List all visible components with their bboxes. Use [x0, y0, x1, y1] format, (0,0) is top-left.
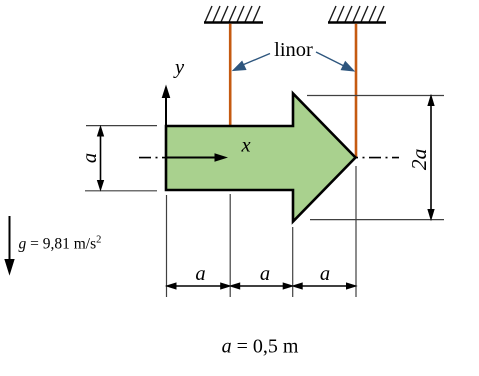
bottom dimension a segment 3	[293, 283, 356, 289]
centerline (dash-dot axis)	[139, 157, 399, 159]
dimension 2a right: extension line bottom	[310, 219, 444, 221]
dimension 2a right: extension line top	[307, 95, 444, 97]
bottom dimension: extension line 3	[292, 227, 294, 297]
dimension 2a right: double arrow	[428, 96, 434, 220]
bottom dimension a segment 1	[167, 283, 231, 289]
ceiling support right (bar)	[328, 21, 386, 24]
callout arrow right	[316, 52, 354, 71]
ceiling support right (hatching)	[329, 6, 384, 22]
ceiling support left (bar)	[204, 21, 263, 24]
dimension a left: extension line top	[86, 125, 157, 127]
y-axis	[162, 85, 171, 159]
svg-text:a: a	[260, 263, 270, 285]
svg-text:y: y	[173, 57, 185, 79]
cord right (linor)	[355, 24, 358, 157]
cord left (linor)	[229, 24, 232, 126]
dimension a left: extension line bottom	[85, 190, 157, 192]
dimension a left: double arrow	[98, 127, 104, 191]
svg-text:a: a	[320, 263, 330, 285]
svg-text:a: a	[195, 263, 205, 285]
svg-text:a: a	[79, 153, 101, 163]
ceiling support left (hatching)	[205, 6, 260, 22]
bottom dimension: extension line 4	[355, 166, 357, 297]
bottom dimension: extension line 1	[166, 195, 168, 297]
callout arrow left	[233, 54, 270, 71]
x-axis	[166, 153, 228, 162]
svg-text:2a: 2a	[407, 149, 431, 171]
bottom dimension: extension line 2	[229, 194, 231, 297]
svg-text:a = 0,5 m: a = 0,5 m	[222, 336, 299, 358]
svg-text:x: x	[240, 135, 250, 157]
gravity arrow	[5, 216, 14, 274]
svg-text:g = 9,81 m/s2: g = 9,81 m/s2	[19, 235, 102, 253]
svg-text:linor: linor	[274, 39, 313, 61]
bottom dimension a segment 2	[230, 283, 293, 289]
arrow-shaped plate (green body)	[166, 94, 356, 222]
